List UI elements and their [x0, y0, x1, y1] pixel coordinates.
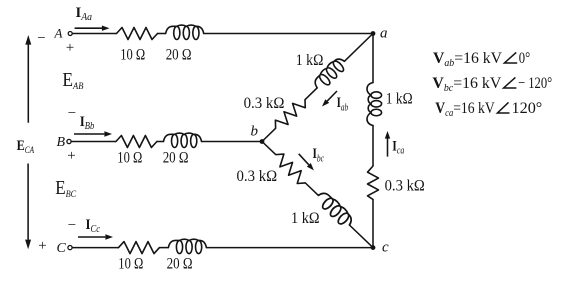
resistor 10 ohm row B	[116, 136, 157, 148]
svg-text:EAB: EAB	[62, 70, 83, 92]
wire resistor to node c (side c-a)	[372, 200, 374, 248]
wire inductor to node c (side b-c)	[349, 225, 373, 248]
wire row C inductor to node c	[206, 247, 373, 249]
current arrow I_ab (points toward b)	[327, 91, 337, 101]
wire node a down to inductor (side c-a)	[372, 34, 374, 83]
svg-text:−: −	[37, 31, 45, 47]
svg-text:+: +	[67, 148, 75, 164]
resistor 0.3 kohm (side c-a)	[368, 166, 379, 200]
svg-text:20 Ω: 20 Ω	[166, 46, 192, 63]
source arrow E_CA lower segment (points down to C)	[27, 164, 29, 240]
wire row C resistor to inductor	[160, 247, 169, 249]
node a junction dot	[371, 31, 376, 36]
source arrow E_CA upper segment (points up to A)	[27, 44, 29, 123]
current arrow I_bc (points toward c)	[299, 154, 309, 165]
inductor 1 kohm (side c-a)	[367, 83, 382, 126]
source arrow E_CA lower arrowhead	[25, 240, 31, 250]
node c junction dot	[371, 245, 376, 250]
svg-text:B: B	[57, 135, 66, 150]
svg-text:A: A	[54, 26, 63, 41]
resistor 10 ohm row A	[117, 28, 158, 40]
inductor 20 ohm row B	[164, 133, 202, 147]
svg-text:IAa: IAa	[76, 5, 93, 23]
svg-text:1 kΩ: 1 kΩ	[386, 91, 413, 108]
wire B terminal to resistor	[71, 141, 116, 143]
inductor 1 kohm (side b-c)	[314, 189, 355, 229]
svg-text:−: −	[68, 218, 76, 234]
svg-text:0°: 0°	[519, 50, 530, 67]
terminal A circle	[68, 32, 72, 36]
svg-text:+: +	[66, 40, 74, 56]
svg-text:Ibc: Ibc	[313, 146, 325, 164]
wire resistor to inductor (side a-b)	[305, 88, 317, 100]
svg-text:Ica: Ica	[392, 138, 404, 156]
svg-text:1 kΩ: 1 kΩ	[296, 52, 324, 69]
resistor 0.3 kohm (side a-b)	[271, 95, 309, 132]
current arrow I_Aa	[75, 27, 103, 29]
resistor 0.3 kohm (side b-c)	[272, 150, 310, 187]
wire inductor to resistor (side c-a)	[372, 126, 374, 167]
svg-text:Vbc=16 kV: Vbc=16 kV	[432, 75, 501, 94]
svg-text:IBb: IBb	[80, 114, 95, 132]
wire inductor to node a (side a-b)	[344, 34, 373, 62]
terminal C circle	[68, 246, 72, 250]
inductor 20 ohm row C	[168, 239, 206, 253]
resistor 10 ohm row C	[119, 242, 160, 254]
svg-text:ICc: ICc	[86, 217, 101, 235]
wire row B inductor to node b	[202, 141, 263, 143]
svg-text:20 Ω: 20 Ω	[167, 256, 193, 273]
svg-text:ECA: ECA	[17, 138, 35, 155]
svg-text:0.3 kΩ: 0.3 kΩ	[385, 178, 425, 195]
source arrow E_CA upper arrowhead	[25, 35, 31, 45]
current arrow I_Cc	[78, 236, 105, 238]
wire node b to resistor (side b-c)	[262, 142, 276, 155]
wire row B resistor to inductor	[157, 141, 164, 143]
wire node b to resistor (side a-b)	[262, 128, 276, 141]
svg-text:−: −	[68, 106, 76, 122]
svg-text:1 kΩ: 1 kΩ	[291, 210, 320, 227]
svg-text:a: a	[380, 25, 388, 41]
svg-text:10 Ω: 10 Ω	[120, 46, 145, 63]
svg-text:10 Ω: 10 Ω	[117, 150, 142, 167]
inductor 20 ohm row A	[166, 25, 204, 39]
svg-text:0.3 kΩ: 0.3 kΩ	[244, 95, 285, 112]
svg-text:0.3 kΩ: 0.3 kΩ	[237, 168, 278, 185]
current arrow I_ca (points up toward a)	[387, 138, 389, 156]
wire C terminal to resistor	[72, 247, 118, 249]
svg-text:20 Ω: 20 Ω	[163, 150, 189, 167]
svg-text:10 Ω: 10 Ω	[118, 256, 143, 273]
wire resistor to inductor (side b-c)	[305, 183, 318, 195]
terminal B circle	[67, 139, 71, 143]
svg-text:Iab: Iab	[337, 95, 349, 113]
svg-text:b: b	[251, 124, 259, 140]
svg-text:EBC: EBC	[55, 178, 77, 200]
wire row A resistor to inductor	[158, 33, 166, 35]
svg-text:Vab=16 kV: Vab=16 kV	[433, 50, 502, 69]
wire A terminal to resistor	[72, 33, 116, 35]
svg-text:120°: 120°	[512, 100, 543, 117]
svg-text:C: C	[57, 241, 67, 256]
svg-text:− 120°: − 120°	[518, 75, 552, 92]
svg-text:Vca=16 kV: Vca=16 kV	[435, 100, 495, 119]
svg-text:c: c	[382, 240, 389, 256]
wire row A inductor to node a	[204, 33, 373, 35]
current arrow I_Bb	[74, 133, 104, 135]
node b junction dot	[260, 139, 265, 144]
inductor 1 kohm (side a-b)	[311, 55, 348, 92]
svg-text:+: +	[38, 238, 46, 254]
